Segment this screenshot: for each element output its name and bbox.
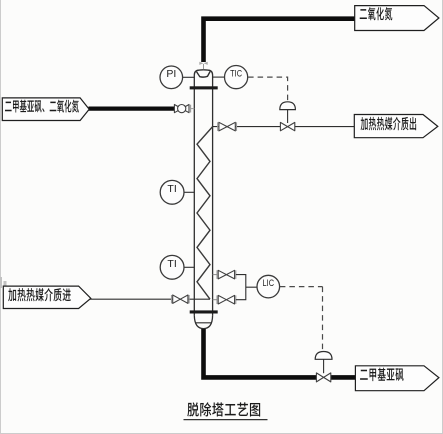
flag text 二甲基亚砜 (360, 368, 404, 381)
wire: bottom product pipe (thick) (204, 328, 317, 377)
wire: bottom pipe after control valve (thick) (331, 375, 356, 380)
svg-text:TIC: TIC (230, 69, 242, 79)
upper tap nozzle line (213, 274, 218, 276)
wire: feed pipe from flag to valve (thick) (89, 106, 175, 110)
instrument TI upper (160, 180, 184, 204)
flag text 二甲基亚砜、二氧化氮 (5, 100, 79, 113)
signal dashed TIC to control valve (248, 77, 288, 101)
lower level-tap valve (217, 295, 236, 304)
stream flag: heating medium outlet (354, 115, 438, 138)
bottom control valve actuator (315, 352, 332, 374)
svg-text:TI: TI (167, 258, 176, 270)
flag text 加热热媒介质出 (361, 117, 417, 131)
top flange band (190, 86, 218, 89)
instrument TI lower (160, 255, 184, 279)
bottom flange band (190, 310, 218, 313)
title underline (184, 419, 268, 421)
signal dashed LIC to bottom control valve (280, 287, 323, 351)
heating outlet control valve actuator (280, 102, 296, 123)
flag text 二氧化氮 (360, 7, 393, 20)
stream flag: bottom product DMSO (355, 366, 439, 391)
column T1 shell (194, 70, 212, 316)
heating outlet control valve body (280, 122, 294, 130)
flag text 加热热媒介质进 (8, 288, 71, 301)
upper level-tap valve (217, 270, 236, 279)
heating inlet manual valve (172, 295, 190, 303)
wire: top gas outlet pipe (thick) (204, 19, 355, 62)
feed ball valve at column inlet (174, 105, 194, 113)
stream flag: feed (DMSO + NO2) (2, 98, 89, 121)
instrument line TI upper (184, 191, 194, 193)
instrument line TI lower (184, 266, 194, 268)
stream flag: top gas NO2 (355, 6, 439, 31)
svg-text:PI: PI (166, 68, 176, 80)
svg-text:TI: TI (167, 183, 176, 195)
stream flag: heating medium inlet (3, 286, 91, 308)
top nozzle fitting (gray) (199, 62, 207, 70)
instrument LIC (257, 275, 280, 298)
level bridle piping (236, 275, 257, 300)
heating coil zigzag (197, 127, 213, 300)
bottom product control valve body (316, 373, 330, 382)
instrument TIC (225, 66, 248, 89)
column bottom head seam line (195, 322, 212, 324)
instrument PI (160, 66, 183, 89)
instrument line PI (183, 76, 195, 78)
column bottom head (194, 315, 212, 328)
wire: heating medium inlet line (90, 298, 210, 300)
heating outlet manual valve near column (218, 122, 237, 131)
top demister hat (197, 72, 211, 78)
wire: heating medium outlet line (213, 126, 355, 128)
title 脱除塔工艺图 (187, 402, 260, 416)
lower tap nozzle line (213, 299, 218, 301)
instrument line TIC (213, 76, 225, 78)
svg-text:LIC: LIC (263, 279, 275, 289)
